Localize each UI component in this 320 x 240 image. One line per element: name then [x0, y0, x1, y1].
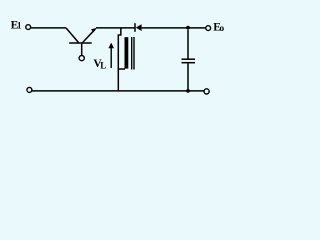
terminal Eo — [206, 26, 211, 31]
junction (top, output node) — [186, 26, 190, 30]
wire inductor branch (top wire down, jog left, down to bottom rail, bottom jog to coil) — [118, 28, 125, 91]
wire top-middle (emitter to inductor branch and diode) — [96, 27, 135, 29]
diode D (cathode bar and triangle pointing left) — [135, 23, 142, 32]
transistor Q1 (NPN pass transistor) — [66, 28, 97, 56]
capacitor C (smoothing capacitor) — [182, 30, 196, 91]
svg-text:L: L — [100, 61, 106, 71]
wire top-right (diode to Eo terminal) — [142, 27, 206, 29]
terminal bottom-right — [204, 89, 209, 94]
svg-text:1: 1 — [17, 21, 22, 31]
terminal E1 — [26, 25, 31, 30]
svg-text:o: o — [219, 24, 224, 34]
terminal bottom-left — [27, 87, 32, 92]
base terminal circle — [79, 56, 84, 61]
voltage arrow VL — [108, 43, 114, 68]
inductor L (choke coil, solid bar) — [125, 37, 129, 68]
wire top-left (E1 to transistor collector) — [31, 27, 66, 29]
junction (bottom, output node return) — [186, 89, 190, 93]
wire bottom rail — [32, 90, 204, 92]
core line 2 — [133, 37, 135, 70]
core line 1 — [131, 37, 133, 70]
